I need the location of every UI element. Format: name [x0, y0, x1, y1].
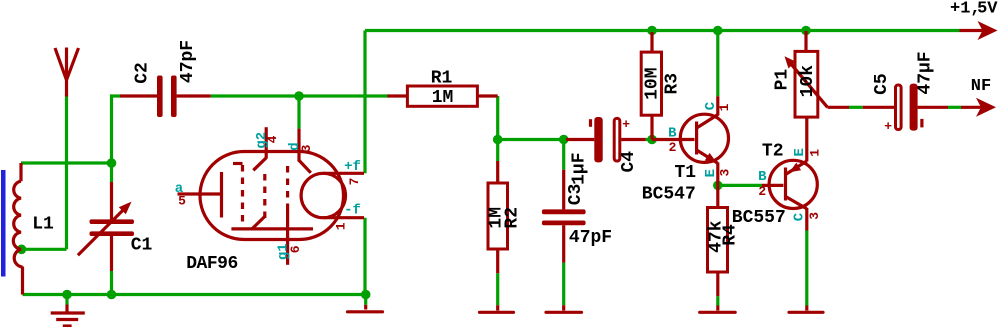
node diode to R1 row	[294, 91, 304, 101]
svg-text:1µF: 1µF	[570, 152, 590, 184]
node junction C2/L1/C1	[107, 158, 117, 168]
svg-text:+1,5V: +1,5V	[950, 0, 998, 19]
wire R2 bottom	[496, 273, 499, 305]
svg-text:10M: 10M	[642, 67, 662, 99]
ground GND under R2	[480, 305, 514, 312]
svg-text:T1: T1	[674, 163, 696, 183]
svg-text:R3: R3	[663, 73, 683, 95]
capacitor C2	[120, 40, 211, 117]
node R1/R2	[493, 135, 503, 145]
svg-text:C: C	[791, 212, 807, 221]
wire C2 to R1 row	[211, 94, 389, 97]
tube pin d (3) diode plate	[287, 129, 314, 173]
tube pin a (5) left electrode	[175, 172, 222, 218]
node C3/C4	[559, 135, 569, 145]
svg-text:T2: T2	[762, 142, 784, 162]
svg-text:C2: C2	[133, 62, 153, 84]
output arrow NF	[961, 77, 996, 117]
frame border fragment	[1, 170, 6, 277]
svg-text:+f: +f	[344, 159, 361, 175]
wire R2 top	[496, 140, 499, 162]
ground GND under tube	[348, 295, 383, 312]
svg-text:NF: NF	[971, 77, 991, 96]
svg-text:10k: 10k	[798, 65, 818, 98]
node T1 emitter / R4	[713, 181, 723, 191]
node -f on rail	[361, 290, 371, 300]
svg-text:L1: L1	[32, 215, 54, 235]
wire coil tap	[22, 248, 67, 251]
resistor R1	[388, 69, 498, 109]
svg-text:7: 7	[347, 178, 362, 186]
svg-text:C1: C1	[131, 236, 153, 256]
svg-text:C5: C5	[872, 73, 892, 95]
svg-text:+: +	[884, 119, 892, 134]
svg-text:47pF: 47pF	[569, 228, 612, 248]
svg-text:3: 3	[807, 212, 822, 220]
node R3/C4/T1 base	[647, 135, 657, 145]
svg-text:3: 3	[299, 144, 314, 152]
node coil tap	[17, 245, 27, 255]
wire diode drop	[297, 96, 300, 129]
svg-text:R1: R1	[431, 69, 453, 89]
node P1 top rail	[801, 26, 811, 36]
wire L1 top to C1/C2	[21, 161, 112, 164]
wire +1,5V rail	[365, 29, 960, 32]
svg-text:1: 1	[334, 222, 349, 230]
svg-text:1: 1	[807, 149, 822, 157]
wire C2 left branch	[112, 96, 121, 163]
polarized capacitor C5	[863, 51, 948, 134]
transistor T2 BC557	[732, 117, 823, 230]
wire R4 bottom	[716, 296, 719, 305]
wire C5 to NF	[948, 106, 961, 109]
node R3 top rail	[647, 26, 657, 36]
svg-text:1: 1	[717, 103, 732, 111]
wire +f riser	[363, 31, 366, 174]
tube pin g2 (4)	[253, 127, 280, 219]
node C1 on rail	[107, 290, 117, 300]
wire T1 emitter to T2 base	[718, 184, 762, 187]
svg-text:BC547: BC547	[642, 185, 696, 205]
svg-text:6: 6	[288, 245, 303, 253]
svg-text:3: 3	[717, 169, 732, 177]
node earth on rail	[62, 290, 72, 300]
svg-text:R2: R2	[502, 207, 522, 229]
ground GND under C3	[546, 305, 582, 312]
polarized capacitor C4	[566, 117, 646, 185]
svg-text:2: 2	[758, 184, 766, 199]
svg-text:B: B	[758, 169, 767, 185]
svg-text:4: 4	[265, 135, 280, 143]
svg-text:-f: -f	[344, 203, 361, 219]
tube pin +f (7)	[323, 159, 364, 185]
tube grid 1 dashed	[233, 164, 243, 230]
inductor L1	[13, 163, 54, 295]
svg-text:47µF: 47µF	[916, 51, 936, 94]
tube pin g1 (6)	[276, 166, 303, 265]
wire earth stub	[65, 295, 68, 306]
capacitor C3	[542, 170, 612, 263]
resistor R3	[641, 32, 683, 140]
svg-text:+: +	[622, 117, 630, 132]
wire P1 wiper net	[849, 106, 863, 109]
svg-text:2: 2	[669, 140, 677, 155]
wire row to C4	[498, 138, 566, 141]
svg-text:P1: P1	[772, 69, 792, 91]
tube U1 DAF96 envelope	[200, 152, 344, 240]
wire -f drop	[363, 218, 366, 295]
svg-text:DAF96: DAF96	[186, 254, 238, 274]
antenna ANT1	[55, 48, 79, 97]
supply arrow +1,5V	[950, 0, 998, 40]
tube name DAF96	[186, 254, 238, 274]
potentiometer P1	[772, 31, 849, 119]
tube cathode bottom line	[231, 217, 313, 229]
svg-text:C3: C3	[566, 184, 586, 206]
tube filament circle	[301, 173, 345, 217]
wire T2 collector down	[805, 231, 808, 306]
ground GND under R4	[700, 306, 736, 313]
wire T1 collector	[716, 31, 719, 97]
wire antenna drop	[65, 95, 68, 249]
svg-text:1M: 1M	[432, 88, 454, 108]
ground GND under T2	[789, 306, 823, 313]
wire C3 bottom	[562, 263, 565, 306]
variable capacitor C1	[78, 182, 153, 271]
wire ground rail bottom	[23, 293, 366, 296]
svg-text:C4: C4	[619, 151, 639, 173]
transistor T1 BC547	[642, 96, 733, 204]
wire R1 right corner	[496, 96, 499, 140]
svg-text:47pF: 47pF	[178, 40, 198, 83]
svg-text:E: E	[792, 148, 808, 156]
ground earth (3-bar)	[51, 305, 85, 327]
wire C1 bottom	[110, 271, 113, 295]
resistor R4	[707, 185, 741, 296]
svg-text:BC557: BC557	[732, 208, 786, 228]
tube pin -f (1)	[323, 203, 364, 231]
wire C3 top	[562, 140, 565, 170]
wire C4 to node B	[646, 138, 652, 141]
node T1 collector rail	[713, 26, 723, 36]
resistor R2	[487, 161, 523, 273]
svg-text:5: 5	[178, 194, 186, 209]
wire C1 top	[110, 163, 113, 182]
